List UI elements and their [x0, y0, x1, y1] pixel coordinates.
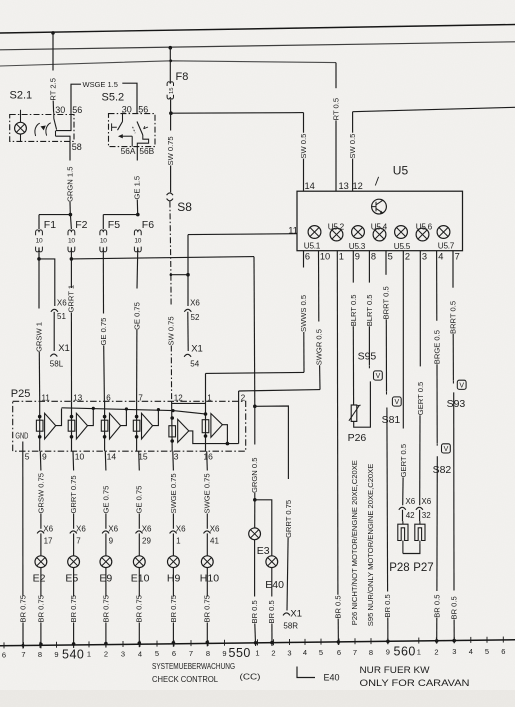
X1 hook	[50, 354, 57, 357]
svg-text:U5.1: U5.1	[304, 242, 321, 251]
svg-text:X6: X6	[405, 497, 415, 506]
wire GRRT 0.75 to X1-58R	[255, 406, 289, 479]
note bracket	[297, 667, 315, 678]
svg-text:S2.1: S2.1	[10, 90, 33, 102]
svg-text:5: 5	[485, 647, 489, 656]
lamp U5.5	[395, 226, 408, 239]
svg-text:BLRT 0.5: BLRT 0.5	[365, 294, 374, 326]
X6 hook	[399, 507, 406, 510]
lamp column E9	[104, 451, 107, 470]
svg-text:6: 6	[305, 252, 310, 262]
svg-text:BR 0.75: BR 0.75	[18, 595, 27, 622]
svg-text:U5.7: U5.7	[438, 242, 455, 251]
svg-text:17: 17	[44, 536, 53, 545]
link pin12-pin1	[172, 402, 206, 404]
S93 plug	[457, 380, 466, 389]
wire BRRT 0.5 U5-5 to S81	[385, 251, 387, 275]
svg-text:1: 1	[207, 393, 212, 402]
svg-text:NUR FUER KW: NUR FUER KW	[360, 665, 430, 676]
S2.1 contact blade	[54, 119, 57, 130]
svg-text:SWGR 0.5: SWGR 0.5	[314, 329, 323, 365]
wire SW 0.75 upper	[170, 99, 172, 130]
svg-text:GERT 0.5: GERT 0.5	[399, 444, 408, 478]
P25 driver unit 5 (pin 12)	[171, 401, 174, 451]
wire SWGR 0.5 U5-10 to P25-2	[318, 251, 320, 322]
fuse F1	[36, 230, 43, 235]
svg-text:2: 2	[434, 647, 438, 656]
svg-text:S81: S81	[382, 414, 401, 426]
bus line 2 (terminal 15)	[0, 42, 515, 50]
wire GE 0.75 upper	[102, 247, 104, 313]
junction F1/F2 feed	[69, 213, 73, 217]
X1 hook	[283, 613, 290, 616]
lamp E2	[35, 556, 47, 568]
svg-text:3: 3	[174, 452, 179, 462]
svg-text:3: 3	[422, 252, 427, 262]
fuse F8 (15A)	[167, 82, 173, 86]
svg-text:U5: U5	[393, 164, 409, 178]
S82 plug	[442, 444, 451, 453]
svg-text:3: 3	[121, 649, 125, 658]
S5.2 arrow	[144, 126, 148, 129]
svg-text:9: 9	[386, 648, 390, 657]
junction ground bus (E5)	[72, 642, 76, 646]
pin 30 stub	[53, 113, 55, 119]
svg-text:S95: S95	[358, 350, 377, 362]
lamp U5.3	[352, 226, 365, 239]
junction ground bus (H10)	[206, 641, 210, 645]
svg-text:6: 6	[501, 647, 505, 656]
wire F1 feed	[39, 214, 70, 216]
wire GRSW 1 F1 to P25-11	[38, 259, 40, 309]
svg-text:BR 0.75: BR 0.75	[69, 595, 78, 622]
svg-text:P27: P27	[413, 562, 433, 574]
svg-text:56: 56	[72, 105, 82, 115]
svg-text:U5.4: U5.4	[371, 222, 388, 231]
svg-text:F6: F6	[142, 219, 154, 231]
heater element P27	[415, 521, 425, 543]
svg-text:S93: S93	[447, 398, 466, 410]
svg-text:F5: F5	[108, 219, 120, 231]
P25 pin 5 (GND)	[22, 442, 24, 452]
svg-text:X6: X6	[210, 525, 220, 534]
svg-text:S8: S8	[177, 200, 192, 214]
svg-text:2: 2	[271, 648, 275, 657]
svg-text:CHECK CONTROL: CHECK CONTROL	[152, 674, 218, 684]
svg-text:S82: S82	[433, 464, 452, 476]
junction ground bus track 2	[435, 639, 439, 643]
pin 56B internal step	[137, 135, 148, 147]
X6 hook	[416, 507, 423, 510]
svg-text:8: 8	[369, 648, 373, 657]
svg-text:9: 9	[109, 536, 114, 545]
svg-text:(CC): (CC)	[240, 671, 261, 681]
junction F2 output	[70, 257, 74, 261]
S5.2 arrow 56A	[119, 135, 122, 138]
svg-text:56B: 56B	[139, 146, 154, 156]
junction on optional wire	[170, 273, 173, 276]
svg-text:BR 0.5: BR 0.5	[450, 596, 459, 619]
lamp H10	[201, 556, 213, 568]
svg-text:GRRT 0.75: GRRT 0.75	[284, 500, 293, 538]
svg-text:30: 30	[55, 105, 65, 115]
junction ground bus track 2	[270, 641, 274, 645]
svg-text:E3: E3	[257, 545, 270, 557]
junction L2/F8 feed	[169, 46, 173, 50]
svg-text:X1: X1	[58, 343, 70, 354]
svg-text:7: 7	[353, 648, 357, 657]
svg-text:56: 56	[138, 104, 148, 114]
svg-text:RT 2.5: RT 2.5	[48, 78, 57, 101]
P28-P27 link	[403, 543, 420, 553]
svg-text:1: 1	[87, 650, 91, 659]
svg-text:SWGE 0.75: SWGE 0.75	[169, 473, 178, 513]
svg-text:4: 4	[469, 647, 473, 656]
svg-text:3: 3	[287, 648, 291, 657]
svg-text:ONLY FOR CARAVAN: ONLY FOR CARAVAN	[360, 678, 470, 689]
svg-text:6: 6	[106, 393, 111, 402]
svg-text:X6: X6	[190, 299, 200, 308]
pin 30 stub	[122, 113, 124, 122]
svg-text:X6: X6	[421, 497, 431, 506]
svg-text:2: 2	[241, 393, 246, 402]
lamp H9	[168, 556, 180, 568]
wire to X1-58L	[53, 312, 55, 351]
control unit P25 boundary	[13, 401, 246, 451]
svg-text:SWGE 0.75: SWGE 0.75	[203, 473, 212, 513]
fuse F5	[102, 215, 104, 230]
svg-text:U5.2: U5.2	[328, 222, 345, 231]
lamp U5.1	[308, 226, 321, 239]
svg-text:BR 0.75: BR 0.75	[169, 595, 178, 622]
connector S8	[167, 193, 173, 195]
lamp U5.7	[437, 226, 450, 239]
wire RT 0.5 to U5 pin 13	[335, 63, 337, 89]
svg-text:30: 30	[122, 104, 132, 114]
P26 lower link	[354, 381, 371, 427]
heater element P28	[398, 521, 408, 553]
svg-text:U5.5: U5.5	[394, 242, 411, 251]
junction F5/F6 feed	[136, 213, 140, 217]
svg-text:BR 0.5: BR 0.5	[334, 595, 343, 618]
svg-text:GE 0.75: GE 0.75	[101, 486, 110, 514]
svg-text:4: 4	[303, 648, 307, 657]
S82 separation	[436, 443, 438, 446]
svg-text:SW 0.75: SW 0.75	[166, 316, 175, 345]
lamp stem	[20, 110, 22, 123]
lamp column E10	[138, 451, 141, 470]
svg-text:10: 10	[75, 452, 85, 462]
link to U5-11 wire	[171, 274, 188, 276]
S5.2 fixed contact	[112, 123, 117, 131]
lamp column H10	[206, 451, 209, 470]
svg-text:V: V	[376, 373, 381, 380]
svg-text:32: 32	[422, 511, 431, 520]
svg-text:BR 0.75: BR 0.75	[135, 595, 144, 622]
wire BR 0.5 to ground	[436, 456, 438, 591]
svg-text:SYSTEMUEBERWACHUNG: SYSTEMUEBERWACHUNG	[152, 661, 235, 671]
svg-text:54: 54	[190, 360, 199, 369]
svg-text:BR 0.5: BR 0.5	[433, 595, 442, 618]
svg-text:7: 7	[138, 393, 143, 402]
junction ground bus track 1	[254, 641, 258, 645]
svg-text:RT 0.5: RT 0.5	[331, 98, 340, 121]
svg-text:8: 8	[38, 650, 42, 659]
svg-text:X1: X1	[290, 609, 302, 620]
svg-text:E5: E5	[65, 573, 78, 585]
svg-text:15: 15	[138, 452, 148, 462]
junction ground bus track 6	[337, 640, 341, 644]
lamp E10	[133, 556, 145, 568]
svg-text:GE 0.75: GE 0.75	[132, 302, 141, 330]
svg-text:P26 NICHT/NOT MOTOR/ENGINE 20X: P26 NICHT/NOT MOTOR/ENGINE 20XE,C20XE	[350, 460, 359, 625]
svg-text:BR 0.5: BR 0.5	[267, 600, 276, 623]
svg-text:BRGE 0.5: BRGE 0.5	[432, 330, 441, 364]
fuse F2	[68, 230, 75, 235]
pin 58 internal step	[56, 136, 71, 141]
wire BLRT 0.5 U5-8 to S95	[368, 251, 370, 283]
svg-text:51: 51	[57, 312, 66, 321]
bus under fuses to E3 branch	[71, 257, 254, 259]
svg-text:GRSW 0.75: GRSW 0.75	[36, 473, 45, 514]
wire to E40	[255, 500, 272, 556]
svg-text:9: 9	[54, 650, 58, 659]
svg-text:S95 NUR/ONLY MOTOR/ENGINE 20XE: S95 NUR/ONLY MOTOR/ENGINE 20XE,C20XE	[366, 464, 375, 626]
svg-text:8: 8	[206, 649, 210, 658]
X1 hook	[184, 354, 191, 357]
svg-text:U5.3: U5.3	[349, 242, 366, 251]
junction E40 branch	[253, 498, 257, 502]
junction L1/S2.1 feed	[51, 31, 55, 35]
S2.1 illumination lamp	[15, 122, 27, 134]
svg-text:E2: E2	[33, 573, 46, 585]
svg-text:58L: 58L	[50, 360, 64, 369]
svg-text:GE 0.75: GE 0.75	[135, 486, 144, 514]
wire SWWS 0.5 U5-6 to P25-1	[303, 251, 305, 268]
junction F1 output	[37, 257, 41, 261]
fuse F6	[134, 230, 141, 235]
svg-text:42: 42	[406, 511, 415, 520]
switch S5.2 boundary	[109, 114, 156, 147]
switch S2.1 boundary	[10, 115, 74, 142]
svg-text:1: 1	[339, 252, 344, 262]
svg-text:BRRT 0.5: BRRT 0.5	[449, 301, 458, 334]
junction ground bus track 7	[22, 644, 25, 647]
wire GRGN 0.5 to E3	[254, 406, 256, 444]
svg-text:GRRT 1: GRRT 1	[67, 285, 76, 313]
U5 voltage stabilizer (transistor)	[372, 199, 387, 214]
svg-text:SWWS 0.5: SWWS 0.5	[299, 295, 308, 332]
pin 56A internal	[131, 136, 133, 146]
wire GE 1.5 S5.2-56B to F6	[136, 147, 138, 161]
svg-text:X6: X6	[57, 299, 67, 308]
wire GE 0.75 upper	[136, 247, 139, 288]
fuse F6	[103, 214, 138, 216]
P25 driver unit 3	[104, 401, 106, 451]
fuse F5	[100, 230, 107, 235]
X6 hook	[184, 309, 191, 312]
junction ground bus (E2)	[39, 643, 43, 647]
S2.1 stalk glyphs	[35, 123, 40, 136]
svg-text:U5.6: U5.6	[416, 222, 433, 231]
lamp U5.4	[373, 228, 386, 241]
svg-text:7: 7	[76, 536, 81, 545]
wire GRRT 1 F2 to P25-13	[70, 259, 72, 288]
wire BLRT 0.5 U5-9 to P26	[352, 251, 354, 283]
junction L3/F8 wire crossing	[169, 59, 172, 62]
svg-text:6: 6	[172, 649, 176, 658]
svg-text:15: 15	[169, 88, 175, 94]
wire SW 0.75 (optional, dash-dot) S8 to P25-12	[170, 202, 171, 275]
svg-text:GRSW 1: GRSW 1	[34, 322, 43, 352]
svg-text:16: 16	[203, 452, 213, 462]
wire GRGN 1.5 S2.1-58 to F2	[69, 141, 71, 160]
svg-text:P26: P26	[348, 432, 367, 444]
svg-text:58: 58	[72, 142, 82, 152]
junction ground bus (E10)	[138, 641, 142, 645]
svg-text:560: 560	[394, 644, 416, 658]
svg-text:5: 5	[319, 648, 323, 657]
svg-text:V: V	[444, 446, 449, 453]
svg-text:GE 1.5: GE 1.5	[133, 176, 142, 200]
svg-text:S5.2: S5.2	[102, 92, 125, 104]
svg-text:7: 7	[21, 650, 25, 659]
wire BRRT 0.5 U5-7 to S93	[452, 251, 454, 288]
svg-text:BLRT 0.5: BLRT 0.5	[349, 294, 358, 326]
wire from bus to fuse F8	[169, 48, 171, 83]
svg-text:12: 12	[353, 181, 363, 191]
svg-text:BR 0.75: BR 0.75	[101, 595, 110, 622]
svg-text:12: 12	[174, 393, 183, 402]
svg-text:1: 1	[417, 647, 421, 656]
svg-text:13: 13	[73, 393, 82, 402]
svg-text:E10: E10	[131, 573, 150, 585]
svg-text:7: 7	[455, 252, 460, 262]
junction F8/U5-14 feed	[169, 111, 173, 115]
svg-text:550: 550	[229, 646, 251, 660]
wire SW 0.5 to U5 pin 14	[171, 112, 304, 115]
P25 pin 2 internal	[238, 391, 240, 444]
svg-text:29: 29	[142, 536, 151, 545]
lamp stem lower	[20, 134, 22, 141]
svg-text:BRRT 0.5: BRRT 0.5	[382, 286, 391, 319]
svg-text:BR 0.5: BR 0.5	[383, 594, 392, 617]
svg-text:4: 4	[438, 252, 443, 262]
svg-text:E40: E40	[324, 673, 340, 683]
svg-text:8: 8	[371, 252, 376, 262]
svg-text:58R: 58R	[283, 621, 298, 630]
svg-text:X6: X6	[108, 525, 118, 534]
fuse F2	[70, 215, 71, 230]
svg-text:SW 0.75: SW 0.75	[166, 136, 175, 165]
P25 driver unit 6 (pin 1)	[205, 401, 207, 451]
svg-text:10: 10	[36, 237, 43, 244]
wire SW 0.5 from right edge to U5 pin 12	[353, 107, 515, 111]
wire BR 0.5 to ground	[453, 392, 455, 590]
svg-text:BR 0.5: BR 0.5	[250, 600, 259, 623]
junction ground bus (H9)	[172, 641, 176, 645]
lamp U5.6	[416, 228, 429, 241]
track ticks	[3, 642, 5, 648]
svg-text:7: 7	[189, 649, 193, 658]
svg-text:540: 540	[62, 647, 84, 661]
wire BR 0.5 to ground	[386, 408, 389, 592]
P25 driver unit 1	[39, 401, 41, 451]
svg-text:V: V	[394, 399, 399, 406]
wire to S2.1 pin 30	[52, 101, 54, 113]
svg-text:GND: GND	[15, 432, 28, 441]
svg-text:GRGN 0.5: GRGN 0.5	[250, 458, 259, 493]
wire GERT 0.5 U5-2 to P28	[402, 251, 404, 429]
lamp E9	[100, 556, 112, 568]
svg-text:E40: E40	[265, 579, 284, 591]
wire GRGN 0.5 branch	[253, 257, 256, 407]
svg-text:X6: X6	[43, 525, 53, 534]
junction 58R branch	[253, 405, 257, 409]
svg-text:10: 10	[100, 237, 107, 244]
svg-text:3: 3	[452, 647, 456, 656]
svg-text:BR 0.75: BR 0.75	[36, 595, 45, 622]
svg-text:1: 1	[255, 649, 259, 658]
svg-text:X6: X6	[176, 525, 186, 534]
svg-text:1: 1	[176, 536, 181, 545]
P25 driver unit 2	[71, 401, 73, 451]
S95 plug	[374, 371, 383, 380]
svg-text:P25: P25	[11, 388, 31, 400]
svg-text:10: 10	[68, 237, 75, 244]
svg-text:2: 2	[104, 650, 108, 659]
lamp column E5	[72, 451, 75, 470]
svg-text:P28: P28	[389, 562, 409, 574]
wire BRGE 0.5 U5-4 to S82	[436, 251, 438, 321]
P25 internal bus	[62, 408, 205, 414]
svg-text:WSGE 1.5: WSGE 1.5	[83, 80, 118, 89]
svg-text:52: 52	[191, 313, 200, 322]
svg-text:10: 10	[320, 252, 330, 262]
lamp E3	[249, 528, 261, 540]
svg-text:9: 9	[355, 252, 360, 262]
lamp E40	[266, 556, 278, 568]
svg-text:BR 0.75: BR 0.75	[203, 595, 212, 622]
S95 separation	[368, 366, 370, 369]
svg-text:H10: H10	[200, 573, 219, 585]
svg-text:5: 5	[25, 452, 30, 462]
svg-text:2: 2	[405, 252, 410, 262]
S5.2 blade 56	[137, 122, 143, 136]
X6 hook	[51, 309, 58, 312]
svg-text:5: 5	[388, 252, 393, 262]
S81 separation	[386, 392, 388, 395]
svg-text:F2: F2	[75, 219, 87, 231]
svg-text:5: 5	[155, 649, 159, 658]
lamp column H9	[172, 451, 175, 470]
instrument unit U5 boundary	[297, 191, 463, 251]
svg-text:56A: 56A	[121, 146, 136, 156]
wire WSGE 1.5 S2.1-56 to S5.2-56	[71, 84, 81, 113]
P25 driver unit 4	[136, 401, 138, 451]
bus line 30 (top supply)	[0, 25, 515, 34]
svg-text:10: 10	[134, 237, 141, 244]
lamp column E2	[39, 451, 42, 470]
branch to connector X6-51	[39, 259, 55, 306]
svg-text:9: 9	[42, 452, 47, 462]
wire U5-11	[187, 235, 189, 275]
wire GERT 0.5 U5-3 to P27	[419, 251, 421, 367]
S93 separation	[452, 381, 454, 384]
wire RT 2.5 from bus to S2.1	[52, 33, 54, 71]
svg-text:GE 0.75: GE 0.75	[99, 318, 108, 346]
svg-text:41: 41	[210, 536, 219, 545]
